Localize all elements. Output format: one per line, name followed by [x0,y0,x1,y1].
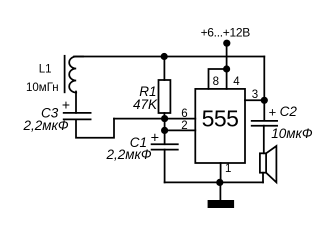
node pin8-pin4 junction dot [223,65,230,72]
wire C1 to bottom rail [164,150,166,183]
speaker BA1 cone [266,146,276,182]
svg-text:+: + [62,97,70,113]
svg-text:10мкФ: 10мкФ [271,126,313,141]
svg-text:+6...+12В: +6...+12В [201,26,251,40]
wire node 2-6 vertical to C1 [164,119,166,145]
svg-text:10мГн: 10мГн [26,82,59,94]
svg-text:2,2мкФ: 2,2мкФ [106,147,152,162]
wire R1 top lead [163,57,165,81]
svg-text:2: 2 [181,120,187,132]
wire C2 to speaker [263,126,265,154]
node rail-R1 junction dot [161,53,168,60]
speaker BA1 body [260,153,266,172]
svg-text:8: 8 [213,76,219,88]
node ground junction dot [216,179,223,186]
resistor R1 body [159,80,171,113]
wire pin2 [165,129,196,131]
wire pin8 loop box [209,69,227,89]
svg-text:3: 3 [252,89,258,101]
svg-text:+: + [151,130,159,146]
wire pin1 [220,163,222,182]
wire pin6 [114,118,195,120]
svg-text:С2: С2 [280,104,298,119]
node supply terminal dot [223,40,230,47]
node pin3 junction dot [261,97,268,104]
wire top supply rail [74,56,264,58]
capacitor C3 plates [64,113,91,120]
svg-text:4: 4 [233,76,240,88]
IC DA1 555 timer body [195,89,245,163]
svg-text:L1: L1 [39,63,52,75]
svg-text:47K: 47K [133,97,158,112]
wire L1 to C3 [75,92,77,113]
inductor L1 core bar [64,56,66,93]
svg-text:+: + [269,105,277,120]
capacitor C2 plates [252,121,277,126]
wire ground stem [219,182,221,200]
svg-text:2,2мкФ: 2,2мкФ [23,118,69,133]
wire pin3 [245,99,264,101]
svg-text:6: 6 [181,108,187,120]
wire R1 bottom lead [163,113,165,119]
node pin6 junction dot [161,115,168,122]
svg-text:1: 1 [225,163,231,175]
inductor L1 coil [69,57,83,93]
wire right drop rail to pin3 and C2 [263,57,265,121]
ground symbol [208,200,235,208]
wire supply vertical pin4 [226,44,228,89]
capacitor C1 plates [152,144,178,149]
wire speaker to bottom rail [262,173,264,183]
wire bottom rail [165,181,263,183]
node pin2 junction dot [161,127,168,134]
svg-text:555: 555 [202,106,239,132]
wire C3 bottom route to pin6 [76,119,114,138]
